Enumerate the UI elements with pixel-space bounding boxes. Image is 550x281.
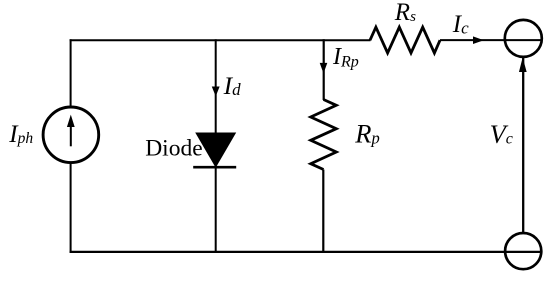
diode cathode bar [193,166,236,169]
svg-text:Ic: Ic [452,11,469,38]
svg-text:Iph: Iph [8,121,33,148]
current arrow I_c [474,37,483,43]
wire [522,57,524,234]
wire [70,162,72,253]
resistor R_p [311,100,337,170]
wire [70,39,371,41]
svg-text:IRp: IRp [332,44,359,70]
svg-text:Diode: Diode [145,135,202,161]
svg-text:Rp: Rp [354,119,379,149]
wire [70,39,72,107]
svg-text:Vc: Vc [490,119,513,149]
wire [440,39,543,41]
wire [215,167,217,253]
diode D (anode triangle) [197,133,235,166]
current arrow I_d [213,87,219,95]
terminal - (bottom right) [505,233,541,269]
wire [215,39,217,133]
wire [70,251,542,253]
wire [322,170,324,253]
current source I_ph [43,107,99,163]
svg-text:Id: Id [223,71,242,100]
resistor R_s [370,27,440,53]
current arrow I_Rp [320,63,326,72]
voltage arrow V_c [520,59,526,71]
wire [323,39,325,100]
terminal + (top right) [505,20,542,57]
svg-text:Rs: Rs [394,0,416,26]
